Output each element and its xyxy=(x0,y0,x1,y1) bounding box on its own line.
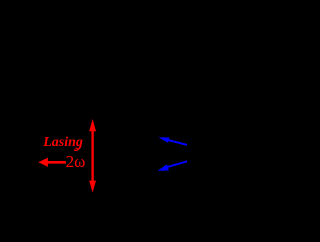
svg-text:Lasing: Lasing xyxy=(42,135,83,150)
blue top arrowhead xyxy=(158,137,169,142)
red horizontal arrowhead xyxy=(38,158,48,167)
wire: blue bottom beam xyxy=(167,160,191,167)
wire: red vertical double arrow shaft xyxy=(91,129,93,183)
g descender tail of Lasing xyxy=(74,147,80,151)
wire: blue top beam xyxy=(168,140,191,146)
blue bottom arrowhead xyxy=(158,164,169,171)
svg-text:2ω: 2ω xyxy=(66,152,86,171)
red vertical arrowhead top xyxy=(89,119,96,131)
red vertical arrowhead bottom xyxy=(89,181,96,193)
wire: red horizontal arrow shaft xyxy=(47,161,66,164)
